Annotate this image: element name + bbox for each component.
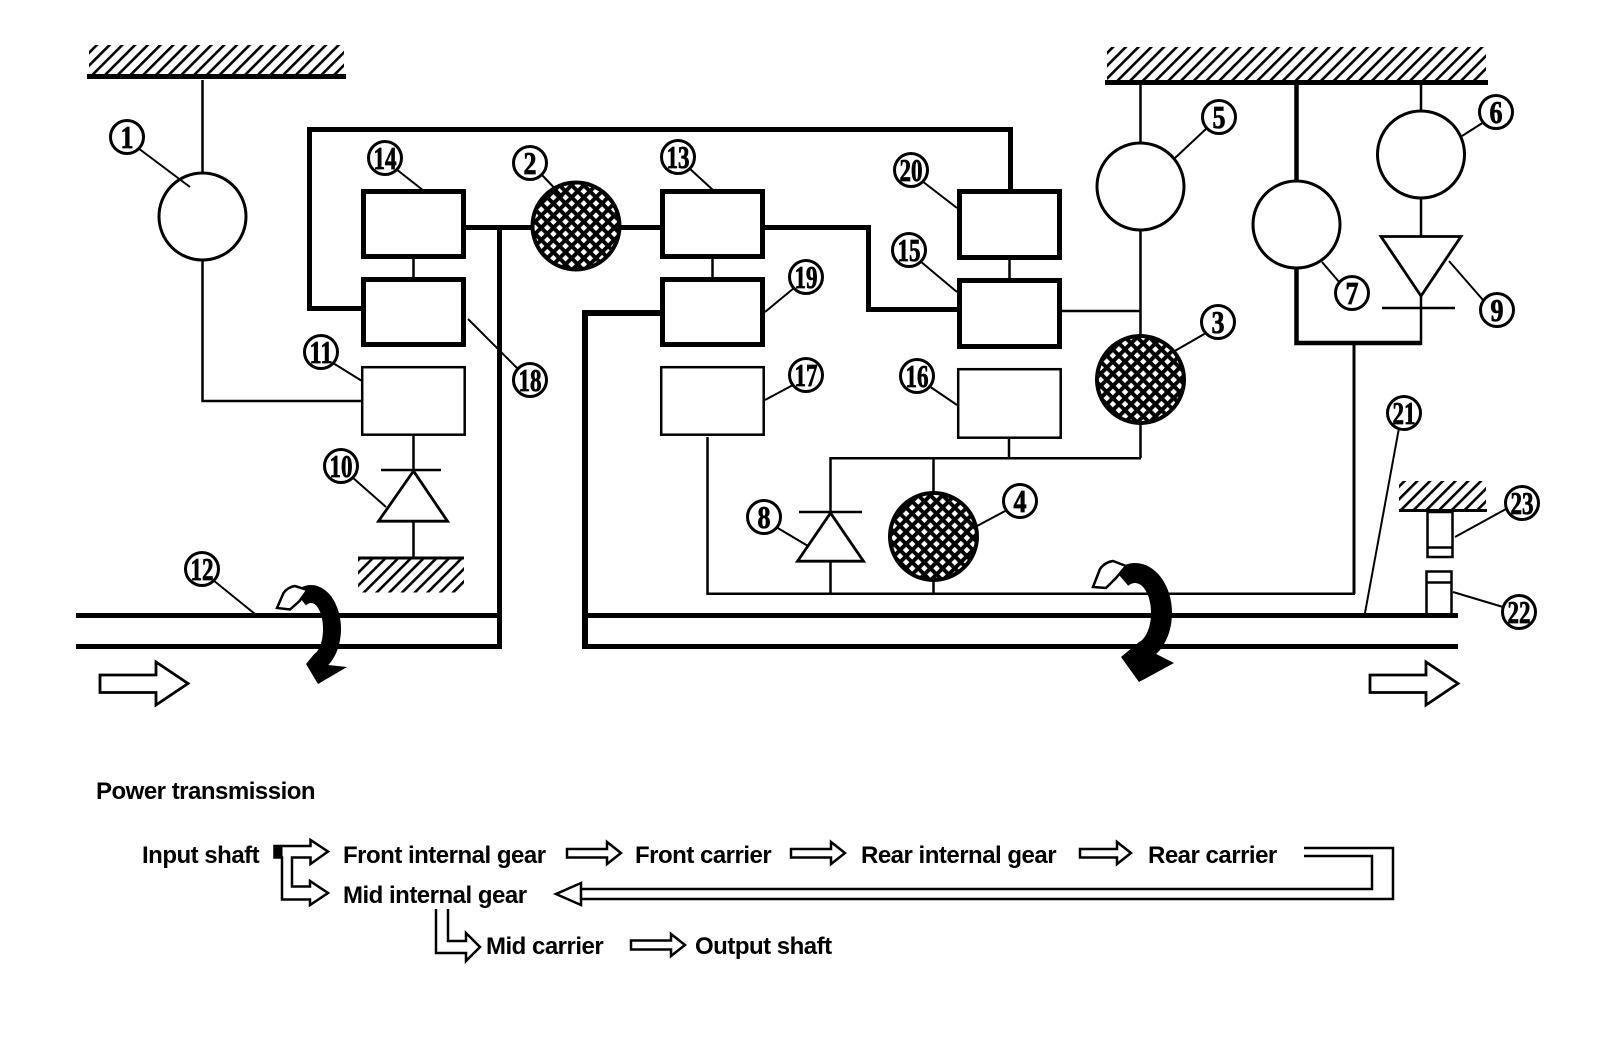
element 1: input clutch circle bbox=[159, 173, 246, 260]
element 6: circle bbox=[1378, 111, 1465, 198]
label 7 bbox=[1322, 262, 1369, 311]
wire: circle6 to clutch9 bbox=[1420, 198, 1423, 237]
label 1 bbox=[111, 119, 191, 187]
stub between box 14 and box 18 bbox=[412, 259, 415, 277]
wire: rear carrier drop bbox=[1353, 344, 1356, 594]
rotation arrow right bbox=[1093, 561, 1174, 682]
wire: support to circle6 bbox=[1420, 84, 1423, 112]
svg-text:21: 21 bbox=[1393, 395, 1416, 431]
fixed support top-left bbox=[87, 45, 346, 77]
label 21 bbox=[1365, 395, 1421, 613]
box 17 bbox=[661, 367, 764, 435]
fixed support under clutch 10 bbox=[358, 558, 464, 593]
svg-text:23: 23 bbox=[1511, 485, 1534, 521]
svg-text:1: 1 bbox=[121, 119, 134, 155]
label 18 bbox=[468, 319, 547, 398]
flow arrow: front internal gear to front carrier bbox=[567, 842, 621, 864]
svg-text:8: 8 bbox=[758, 499, 771, 535]
wire: circle5 to element3 bbox=[1139, 230, 1142, 336]
svg-text:15: 15 bbox=[898, 232, 921, 268]
return path from rear carrier to mid internal gear bbox=[556, 848, 1393, 905]
one-way clutch 9 bbox=[1381, 237, 1461, 346]
flow arrow: mid carrier to output shaft bbox=[631, 934, 685, 956]
wire: box15 right to rear column bbox=[1061, 310, 1140, 313]
fixed support right-small bbox=[1399, 481, 1487, 511]
svg-text:Power transmission: Power transmission bbox=[96, 778, 315, 805]
svg-text:19: 19 bbox=[795, 259, 818, 295]
wire: rear carrier return row y594 (box17 stem to drop) bbox=[708, 437, 1356, 594]
box 11 bbox=[362, 367, 465, 435]
svg-text:6: 6 bbox=[1490, 94, 1503, 130]
wire: brake feed row y458 bbox=[831, 458, 1142, 513]
label 13 bbox=[662, 139, 715, 191]
wire: support to circle7 bbox=[1294, 84, 1299, 181]
svg-text:Rear carrier: Rear carrier bbox=[1148, 842, 1277, 869]
wire: support to circle5 bbox=[1139, 84, 1142, 143]
rotation arrow left bbox=[277, 585, 347, 684]
wire: element3 stub down bbox=[1139, 422, 1142, 458]
label 11 bbox=[305, 334, 363, 381]
svg-text:18: 18 bbox=[519, 362, 542, 398]
spline element 22 bbox=[1426, 572, 1452, 615]
wire: element4 bottom stub bbox=[932, 579, 935, 595]
svg-text:20: 20 bbox=[900, 152, 923, 188]
branch arrow from mid internal gear to mid carrier bbox=[436, 909, 480, 961]
box 16 bbox=[958, 369, 1060, 438]
svg-text:Mid internal gear: Mid internal gear bbox=[343, 882, 527, 909]
svg-text:Front internal gear: Front internal gear bbox=[343, 842, 546, 869]
element 4: crosshatched brake bbox=[890, 493, 977, 580]
svg-text:Output shaft: Output shaft bbox=[695, 933, 832, 960]
wire: circle7 to junction bbox=[1297, 268, 1422, 343]
svg-text:16: 16 bbox=[906, 358, 929, 394]
element 3: crosshatched brake bbox=[1097, 336, 1184, 423]
wire: element4 top stub bbox=[932, 458, 935, 494]
svg-text:10: 10 bbox=[330, 448, 353, 484]
label 14 bbox=[369, 140, 425, 191]
label 9 bbox=[1449, 261, 1514, 328]
label 10 bbox=[325, 448, 387, 507]
label 15 bbox=[893, 232, 958, 292]
box 14 bbox=[364, 192, 464, 257]
svg-text:5: 5 bbox=[1213, 99, 1226, 135]
wire: front carrier drop to shaft bbox=[497, 227, 502, 648]
output flow arrow (bottom right) bbox=[1370, 662, 1458, 705]
stub between box 13 and box 19 bbox=[711, 259, 714, 277]
label 8 bbox=[748, 499, 809, 546]
label 23 bbox=[1455, 485, 1539, 537]
svg-text:Front carrier: Front carrier bbox=[635, 842, 771, 869]
wire: mid internal gear feed (to box19 left, down to shaft) bbox=[585, 313, 660, 646]
svg-text:11: 11 bbox=[310, 334, 333, 370]
svg-text:Input shaft: Input shaft bbox=[142, 842, 260, 869]
label 22 bbox=[1453, 592, 1536, 630]
label 4 bbox=[977, 483, 1037, 526]
svg-text:22: 22 bbox=[1508, 594, 1531, 630]
svg-text:17: 17 bbox=[795, 357, 818, 393]
output shaft lines bbox=[582, 616, 1458, 647]
svg-text:12: 12 bbox=[191, 551, 214, 587]
label 5 bbox=[1175, 99, 1236, 158]
svg-text:14: 14 bbox=[374, 140, 397, 176]
input flow arrow (bottom left) bbox=[100, 662, 188, 705]
box 20 bbox=[960, 192, 1060, 258]
box 18 bbox=[364, 280, 464, 345]
input shaft lines bbox=[76, 616, 502, 647]
svg-text:13: 13 bbox=[667, 139, 690, 175]
label 17 bbox=[765, 357, 823, 400]
wire: support to element 1 bbox=[201, 80, 204, 173]
wire: element 1 to box 11 bbox=[203, 260, 363, 401]
svg-text:Rear internal gear: Rear internal gear bbox=[861, 842, 1056, 869]
flow arrow: front carrier to rear internal gear bbox=[791, 842, 845, 864]
one-way clutch 8 bbox=[798, 512, 864, 595]
svg-text:3: 3 bbox=[1212, 304, 1225, 340]
element 7: circle bbox=[1253, 181, 1340, 268]
spline element 23 bbox=[1427, 512, 1453, 557]
svg-text:Mid carrier: Mid carrier bbox=[486, 933, 603, 960]
box 15 bbox=[960, 281, 1060, 347]
wire: box16 stem bbox=[1008, 438, 1011, 459]
box 19 bbox=[663, 280, 763, 345]
label 2 bbox=[514, 145, 564, 197]
label 3 bbox=[1173, 304, 1235, 352]
label 12 bbox=[186, 551, 256, 614]
label 16 bbox=[901, 358, 958, 405]
element 5: circle bbox=[1097, 143, 1184, 230]
stub between box 20 and box 15 bbox=[1008, 260, 1011, 279]
one-way clutch 10 bbox=[379, 436, 448, 557]
label 6 bbox=[1462, 94, 1513, 136]
svg-text:9: 9 bbox=[1491, 292, 1504, 328]
label 20 bbox=[895, 152, 958, 208]
flow arrow: rear internal gear to rear carrier bbox=[1080, 842, 1131, 864]
svg-text:2: 2 bbox=[524, 145, 537, 181]
svg-text:4: 4 bbox=[1014, 483, 1027, 519]
branch arrow from Input shaft bbox=[275, 840, 329, 905]
svg-text:7: 7 bbox=[1346, 275, 1359, 311]
wire: box13 right to box15 left bbox=[764, 228, 958, 310]
label 19 bbox=[765, 259, 823, 312]
box 13 bbox=[663, 192, 763, 257]
element 2: crosshatched clutch bbox=[533, 183, 620, 270]
wire: front internal gear loop (box20 top to box18 left) bbox=[310, 130, 1011, 309]
fixed support top-right bbox=[1105, 47, 1488, 83]
wire: box14 - element2 - box13 bbox=[466, 225, 660, 230]
